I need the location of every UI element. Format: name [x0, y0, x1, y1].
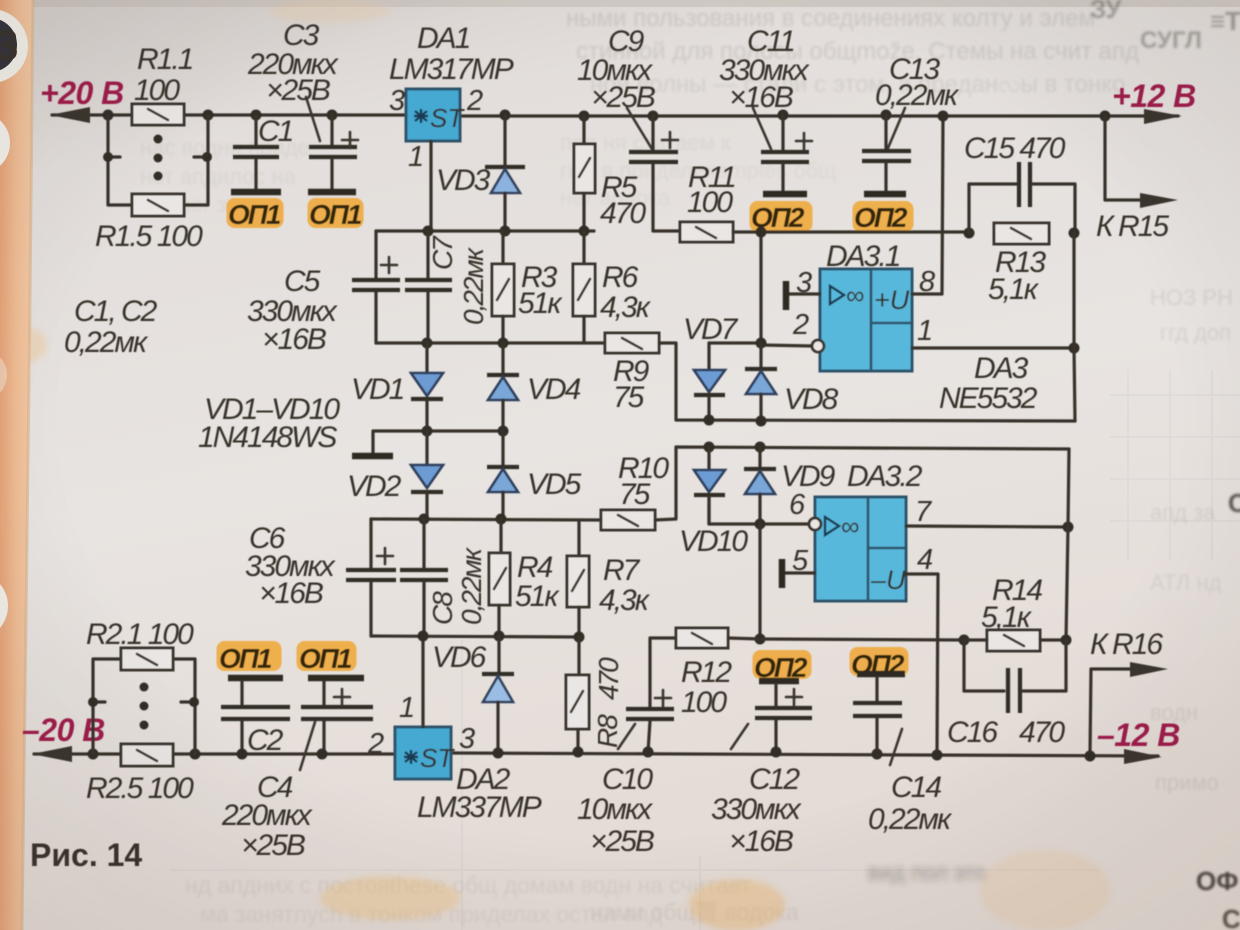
dots (R2.2-R2.4 omitted) [140, 683, 149, 730]
resistor R4 [489, 519, 510, 636]
callout circle top-left [0, 9, 28, 83]
node R7/R8 [574, 632, 585, 643]
node C3 [327, 110, 338, 121]
common bar OP2 (C12) [759, 678, 799, 685]
resistor R10 [601, 510, 655, 530]
node C8 bottom [418, 631, 429, 642]
label C7 0,22mk (rotated) [427, 235, 489, 325]
resistor R7 [567, 520, 589, 637]
capacitor C9 (electrolytic) [629, 116, 680, 231]
node C7 top [423, 226, 434, 237]
node R14 left [959, 635, 970, 646]
pin 8 wire [912, 116, 943, 294]
node R3 top [500, 226, 511, 237]
common bar OP1 (C1) [231, 189, 281, 196]
dots (R1.2-R1.4 omitted) [154, 135, 163, 181]
wire to K R15 [1105, 116, 1140, 200]
IC DA1 LM317MP [406, 89, 465, 141]
pointer to C12 [731, 724, 748, 749]
op-amp DA3.2 [815, 497, 906, 601]
wire riser R12 node [758, 524, 761, 639]
diode VD8 [745, 343, 777, 421]
label R8 470 (rotated) [592, 657, 624, 748]
diode VD6 [482, 636, 514, 753]
pointer to C3 [306, 97, 320, 141]
diode VD3 [485, 115, 525, 231]
node B [203, 110, 214, 121]
node VD6 top [494, 631, 505, 642]
node VD4/VD5 [498, 426, 509, 437]
BLEED-BOTTOM [185, 872, 799, 927]
common bar OP1 (C4) [308, 675, 364, 682]
capacitor C10 (electrolytic) [626, 690, 674, 752]
capacitor C1 [233, 115, 279, 189]
node A [103, 110, 114, 121]
common bar OP2 (C11) [763, 191, 807, 198]
pointer to C9 [627, 108, 652, 149]
-20V arrow [32, 746, 72, 762]
node C1 [251, 110, 262, 121]
wire K R16 [1090, 669, 1130, 754]
capacitor C4 (electrolytic) [301, 681, 373, 754]
wire R12 to R14 [760, 639, 964, 640]
node C11 top [778, 110, 789, 121]
wire R10 to VD9/VD10 tops [655, 447, 1069, 520]
capacitor C3 (electrolytic) [309, 115, 358, 189]
resistor R12 [650, 628, 760, 707]
resistor R5 [574, 116, 595, 231]
K R15 arrow [1140, 193, 1178, 208]
node VD3 top [500, 110, 511, 121]
node riser top [756, 227, 767, 238]
resistor R6 [573, 231, 595, 343]
node C2 [237, 749, 248, 760]
resistor R13 [994, 223, 1049, 244]
wire R1 branch [108, 115, 208, 205]
wire VD bottoms to pin6 [709, 496, 812, 524]
-12V arrow [1124, 749, 1162, 764]
capacitor C6 (electrolytic) [346, 519, 396, 636]
node C13 top [881, 110, 892, 121]
resistor R14 [964, 630, 1066, 651]
node R4 top [496, 514, 507, 525]
diode VD2 [411, 431, 443, 519]
capacitor C8 [400, 519, 448, 636]
node R13 left [964, 228, 975, 239]
node VD4 top [498, 338, 509, 349]
pointer to C13 [888, 108, 905, 148]
op-amp DA3.1 [820, 269, 912, 371]
page edge strip [0, 0, 33, 930]
node riser R12 [755, 634, 766, 645]
pin 7 wire [906, 526, 1068, 527]
node VD9 bottom [755, 519, 766, 530]
node R2 right [190, 749, 201, 760]
wire riser R11 node [759, 232, 762, 343]
node VD1 top [422, 338, 433, 349]
wire output to VD8 line [1074, 233, 1075, 421]
wire top rail [52, 115, 1178, 116]
BLEED-RIGHT [1150, 285, 1233, 795]
resistor R2.1 [121, 648, 173, 670]
diode VD5 [487, 431, 519, 519]
pointer to C4 [300, 722, 315, 770]
diode VD4 [487, 343, 519, 431]
capacitor C13 [862, 115, 911, 190]
capacitor C12 (electrolytic) [755, 684, 812, 752]
diode VD9 [744, 447, 776, 524]
pin 3 wire with common tick [786, 281, 820, 310]
BLEEDTHROUGH [140, 5, 1139, 217]
node riser bottom [756, 338, 767, 349]
wire mid line [373, 431, 503, 453]
capacitor C16 [964, 640, 1066, 713]
node C14 [872, 749, 883, 760]
+12V arrow [1144, 109, 1182, 124]
node C8 top [419, 514, 430, 525]
node VD1/VD2 [422, 426, 433, 437]
pin 2 circle [812, 340, 824, 352]
junction ticks R1 branch [103, 152, 113, 162]
diode VD1 [411, 343, 443, 431]
diode VD10 [694, 447, 725, 524]
common bar OP1 (C2) [228, 675, 283, 682]
wire R9 to VD7/VD8 bottoms [659, 343, 1075, 421]
node VD7 bottom [704, 415, 715, 426]
node VD10 top [704, 442, 715, 453]
resistor R9 [605, 333, 659, 353]
node pin7 [1063, 522, 1074, 533]
common bar OP2 (C14) [857, 671, 905, 678]
node C12 [771, 747, 782, 758]
label C8 0,22mk (rotated) [427, 546, 487, 625]
node C9 top [648, 111, 659, 122]
node VD8 bottom [756, 416, 767, 427]
pin 1 wire [912, 346, 1074, 349]
common bar OP1 (C3) [308, 189, 356, 196]
resistor R8 [566, 637, 589, 752]
capacitor C11 (electrolytic) [761, 115, 812, 190]
pointer to C10 [618, 724, 635, 749]
capacitor C15 [969, 162, 1075, 233]
ground bar [352, 453, 393, 460]
pin 5 wire with common tick [782, 559, 815, 588]
node R8 bottom [573, 747, 584, 758]
+20V arrow [50, 107, 90, 123]
white circle fragments on strip [0, 112, 10, 174]
node R13 right [1069, 228, 1080, 239]
wire VD7 top segment [709, 343, 813, 346]
pointer to C14 [890, 729, 902, 765]
node R2 left [88, 749, 99, 760]
wire node line y519 [371, 519, 601, 520]
resistor R11 [680, 222, 969, 242]
node VD6/DA2 pin3 [493, 748, 504, 759]
pointer to C11 [753, 108, 771, 149]
IC DA2 LM337MP [395, 727, 455, 779]
node R5/R6 [579, 226, 590, 237]
resistor R1.5 [132, 194, 184, 216]
junction ticks R2 branch [88, 697, 98, 707]
pin 6 circle [809, 518, 821, 530]
resistor R1.1 [132, 104, 184, 125]
common bar OP2 (C13) [864, 191, 906, 198]
capacitor C7 [405, 231, 452, 343]
capacitor C2 [221, 681, 290, 754]
node VD9 top [755, 442, 766, 453]
wire node line y343 [376, 341, 605, 344]
capacitor C14 [853, 677, 902, 754]
diode VD7 [694, 343, 725, 420]
wire R2 branch [93, 659, 195, 754]
orange highlights under ОП labels [217, 198, 914, 679]
node pin1/R13 [1069, 343, 1080, 354]
resistor R3 [492, 231, 514, 343]
node R5 top [579, 111, 590, 122]
node +12V branch [1100, 111, 1111, 122]
resistor R2.5 [121, 744, 173, 766]
wire node line (DA1 adj) [376, 229, 594, 232]
node C4 [317, 749, 328, 760]
K R16 arrow [1130, 662, 1168, 677]
wire output column [1066, 449, 1069, 640]
wire node line y636 [371, 636, 579, 637]
wire bottom rail [34, 753, 1158, 756]
node pin8 rail [938, 111, 949, 122]
node -12V K R16 [1085, 751, 1096, 762]
node C10 [643, 747, 654, 758]
node pin4 rail [932, 750, 943, 761]
node R14 right [1061, 635, 1072, 646]
pin 4 wire [906, 574, 938, 754]
wire DA1 pin1 [429, 141, 432, 231]
wire DA2 pin1 [421, 636, 424, 727]
capacitor C5 (electrolytic) [352, 231, 400, 343]
